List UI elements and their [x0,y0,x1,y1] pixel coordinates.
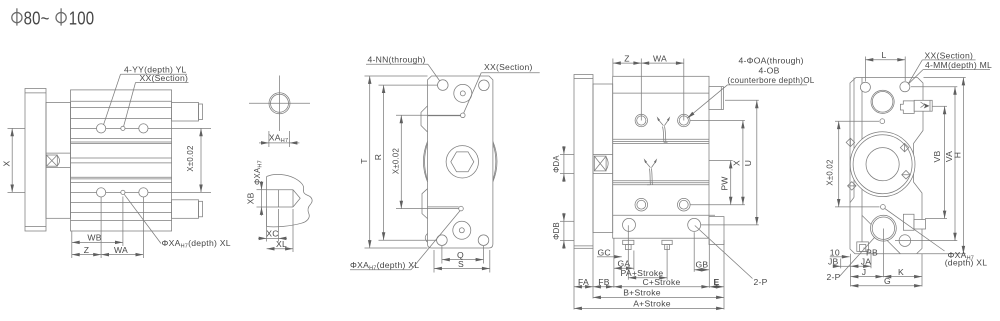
dimension JA [870,253,872,269]
rod silhouette lines in collar v4 [593,153,613,155]
dimension B+Stroke [593,296,724,298]
svg-text:XAH7: XAH7 [269,133,289,145]
svg-text:FA: FA [578,277,589,287]
single hole left [623,218,636,231]
breather symbol Y1 [657,116,671,142]
bottom-left bump [425,234,427,243]
dimension X (left) [8,127,26,129]
body [71,90,172,231]
dimension U [725,99,759,101]
body stripes [71,101,172,220]
top-right hole [900,82,910,92]
bottom-right rod stub [709,217,724,245]
small hole upper [461,113,466,118]
svg-text:100: 100 [69,8,95,29]
dimension XB [257,189,267,191]
XA dot lower [881,205,886,210]
body [613,76,709,238]
dimension phiDB [560,220,574,222]
broken-out section detail [266,177,268,227]
svg-text:C+Stroke: C+Stroke [642,277,680,287]
hole top-right [479,80,490,91]
collar [593,84,613,233]
svg-text:2-P: 2-P [754,277,768,287]
svg-text:X±0.02: X±0.02 [392,148,401,174]
holes bottom [437,235,448,246]
svg-text:B+Stroke: B+Stroke [623,288,661,298]
breather symbol Y2 [644,158,658,184]
small hole lower [459,206,464,211]
dimension PW [709,160,733,162]
XA dot upper [880,119,885,124]
pin circle [269,93,290,114]
svg-text:XX(Section): XX(Section) [925,50,974,60]
tie-rod tab lower-right [902,170,910,178]
svg-text:XX(Section): XX(Section) [140,73,189,83]
port holes row 2 [635,198,648,211]
PB pocket [857,242,869,252]
svg-text:XX(Section): XX(Section) [484,62,533,72]
dimension H [924,77,966,79]
svg-text:ΦDA: ΦDA [552,155,561,173]
dimension X+-0.02 (right) [172,127,211,129]
hole 4-NN top-left [438,80,449,91]
svg-text:WB: WB [87,233,101,243]
svg-text:R: R [373,154,383,160]
dimension GA [633,251,635,271]
bottom port circle [871,215,897,241]
collar [46,102,71,218]
dimension X+-0.02 view5 [835,120,879,122]
svg-text:JA: JA [861,257,872,267]
body lines [613,92,709,94]
dimension VB [933,105,948,107]
end plate [574,75,593,249]
counterbore bottom [453,221,471,239]
svg-text:ΦXAH7: ΦXAH7 [253,160,264,185]
section square symbol [594,156,608,171]
inner vertical lines [853,78,855,198]
dimension S [433,250,435,273]
hex socket [446,146,478,178]
svg-text:XB: XB [245,192,255,204]
svg-text:(depth) XL: (depth) XL [945,257,988,267]
sensor rail boss top [900,101,914,114]
dowel boss [267,189,293,191]
dimension R [379,84,438,86]
dimension XL [292,209,294,252]
dimension X view4 [690,120,745,122]
top-left hole [860,82,870,92]
left tab lower [422,189,428,219]
dimension X+-0.02 view3 [396,114,461,116]
dimension PA+Stroke [627,225,629,279]
label phiXA(depth) XL view1 [124,194,161,243]
single hole right (P port) [688,218,701,231]
svg-text:K: K [898,267,904,277]
svg-text:G: G [884,276,891,286]
bottom small hole [899,235,911,247]
section square symbol [46,155,59,166]
svg-text:4-NN(through): 4-NN(through) [368,54,426,64]
left tab upper [421,106,428,132]
svg-text:X±0.02: X±0.02 [186,145,195,171]
label 2-P view4 [695,226,753,279]
svg-text:A+Stroke: A+Stroke [633,299,671,309]
tie-rod tab lower-left [848,182,856,190]
dimension Z / WA top [612,59,614,77]
dimension T [365,75,428,77]
body outline [850,78,923,254]
svg-text:XL: XL [276,239,287,249]
dimension GB [693,232,695,272]
dimension phiDA [560,153,574,155]
svg-text:PW: PW [719,176,729,191]
svg-text:80~: 80~ [24,8,50,29]
svg-text:ΦXAH7(depth) XL: ΦXAH7(depth) XL [162,238,231,250]
svg-text:U: U [743,160,753,166]
dimension J / K [850,254,852,287]
dimension A+Stroke [574,307,724,309]
holes row 2 [97,188,106,197]
svg-text:S: S [458,259,464,269]
svg-text:JB: JB [828,257,839,267]
port holes row 1 [635,114,647,126]
upper bore [871,90,894,113]
svg-text:WA: WA [114,245,128,255]
side arcs left [423,141,427,181]
left edge notch [850,197,854,202]
tie-rod tab upper-right [900,143,908,151]
main bore circles [850,132,915,197]
svg-text:Z: Z [624,53,630,63]
svg-text:FB: FB [598,277,609,287]
holes row 1 [97,124,106,133]
svg-text:X±0.02: X±0.02 [825,159,834,185]
svg-text:(counterbore depth)OL: (counterbore depth)OL [727,76,814,85]
dimension G [851,285,923,287]
svg-text:4-ΦOA(through): 4-ΦOA(through) [739,56,804,66]
svg-text:VB: VB [932,151,942,163]
svg-text:GB: GB [695,260,708,270]
title phi80~phi100 [12,8,66,25]
svg-text:L: L [881,50,886,60]
svg-text:4-OB: 4-OB [759,65,780,75]
dimension WB [71,231,73,258]
side arcs right [493,141,497,181]
dimension JB [840,259,842,269]
counterbore top [454,84,472,102]
mounting stud left [623,240,634,244]
svg-text:XC: XC [266,229,278,239]
internal chamfer edge 45deg [862,215,900,253]
svg-text:T: T [359,158,369,163]
svg-text:J: J [862,267,867,277]
svg-text:GC: GC [598,247,611,257]
body outline [428,76,493,248]
svg-text:X: X [732,160,742,166]
dimension FA FB C+Stroke E [573,248,575,309]
dimension XC [266,209,268,242]
top-right rod stub [709,87,723,110]
svg-text:2-P: 2-P [827,272,841,282]
tie-rod tab upper-left [846,138,854,146]
dimension VA [911,86,957,88]
svg-text:Z: Z [84,245,90,255]
dimension Q [441,246,443,264]
svg-text:ΦDB: ΦDB [552,222,561,240]
svg-text:X: X [2,160,12,166]
bottom rod stub [172,200,199,219]
inner edge lines [428,115,461,117]
mounting stud right [662,240,672,244]
end plate [25,89,46,232]
svg-text:H: H [953,152,963,158]
dimension XA H7 [268,131,270,147]
svg-text:4-MM(depth) ML: 4-MM(depth) ML [925,60,992,70]
svg-text:E: E [714,277,720,287]
top rod stub [172,103,199,122]
dimension L [864,57,866,82]
sensor rail boss bottom [903,214,914,230]
centerlines [249,102,310,104]
svg-text:WA: WA [653,53,667,63]
dimension Z / WA [100,197,102,258]
rod silhouette lines in collar [46,152,71,154]
